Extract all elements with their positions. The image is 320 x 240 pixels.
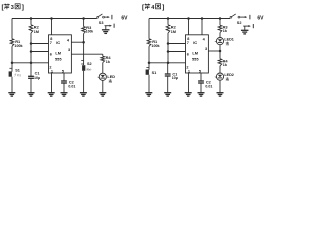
svg-text:ﾌﾟｯｼｭ: ﾌﾟｯｼｭ <box>14 73 21 77</box>
wire pin1 to ground fig4 <box>188 73 190 93</box>
wire pin7 line fig4 <box>168 43 186 45</box>
resistor R2 <box>29 25 39 34</box>
ground under S2 <box>80 92 87 94</box>
wire LED2 to ground fig4 <box>219 80 221 93</box>
svg-text:S2: S2 <box>87 62 92 66</box>
wire rail to R2 <box>30 19 32 25</box>
wire R3 to LED1 fig4 <box>219 33 221 38</box>
resistor R4 <box>101 55 111 64</box>
svg-text:555: 555 <box>192 56 199 61</box>
node rail-pin8 junction fig4 <box>187 17 190 20</box>
svg-text:S1: S1 <box>15 69 20 73</box>
capacitor C2 <box>61 80 75 88</box>
ground under S1 <box>8 92 15 94</box>
node rail-pin8 junction <box>50 17 53 20</box>
ground under S1 fig4 <box>145 92 152 94</box>
svg-text:6V: 6V <box>121 16 128 22</box>
battery minus terminal bar <box>113 24 115 28</box>
node rail-pin4 junction fig4 <box>201 17 204 20</box>
wire rail to R1 <box>11 19 13 39</box>
svg-text:6: 6 <box>187 52 189 56</box>
svg-text:S1: S1 <box>152 71 157 75</box>
svg-text:5: 5 <box>62 69 64 73</box>
wire battery minus line <box>105 25 111 27</box>
svg-text:LM: LM <box>192 51 198 56</box>
switch S1 pushbutton fig4 <box>146 67 157 75</box>
svg-text:10μ: 10μ <box>172 76 178 80</box>
node trigger junction <box>11 62 14 65</box>
wire +V rail circuit1 <box>12 18 97 20</box>
wire S1 to ground <box>11 77 13 93</box>
node pin7 junction fig4 <box>167 42 170 45</box>
node pin7 junction <box>30 42 33 45</box>
ground at battery minus <box>102 29 110 31</box>
svg-text:0.01: 0.01 <box>205 85 212 89</box>
svg-text:0.01: 0.01 <box>68 85 75 89</box>
svg-text:1M: 1M <box>34 30 39 34</box>
svg-text:LED2: LED2 <box>224 73 233 77</box>
svg-text:LED: LED <box>107 75 115 79</box>
svg-text:6: 6 <box>50 52 52 56</box>
wire pin3 output line <box>71 53 102 55</box>
wire S1 to ground fig4 <box>148 75 150 93</box>
node trigger junction fig4 <box>148 62 151 65</box>
LED D1 <box>98 73 116 83</box>
wire reset node to S2 <box>83 42 85 65</box>
wire node down to S1 fig4 <box>148 63 150 70</box>
svg-text:10μ: 10μ <box>34 76 40 80</box>
svg-text:7: 7 <box>50 41 52 45</box>
figure label [第3図] <box>2 4 24 12</box>
wire +V rail circuit2 <box>149 18 230 20</box>
node rail-R3 junction fig4 <box>219 17 222 20</box>
svg-text:1: 1 <box>188 69 190 73</box>
wire rail to R1 fig4 <box>148 19 150 39</box>
node C1 junction fig4 <box>167 62 170 65</box>
wire pin2 line fig4 <box>149 62 186 64</box>
battery plus terminal bar fig4 <box>249 15 251 20</box>
wire C1 to ground fig4 <box>167 76 169 93</box>
wire minus to ground fig4 <box>244 26 246 30</box>
svg-text:IC: IC <box>193 40 197 45</box>
node C1 junction <box>30 62 33 65</box>
svg-text:S3: S3 <box>99 21 104 25</box>
svg-text:LED1: LED1 <box>224 38 233 42</box>
switch S2 pushbutton <box>81 61 92 72</box>
svg-text:LM: LM <box>55 51 61 56</box>
svg-text:100k: 100k <box>14 44 23 48</box>
wire rail to R2 fig4 <box>167 19 169 25</box>
ground under C2 fig4 <box>198 92 205 94</box>
svg-text:100k: 100k <box>86 30 94 34</box>
wire pin1 IC to ground <box>51 73 53 93</box>
ground under pin1 <box>48 92 55 94</box>
battery plus terminal bar <box>111 15 113 20</box>
battery minus terminal bar fig4 <box>252 24 254 28</box>
switch S3 power <box>97 16 99 18</box>
wire C2 to ground fig4 <box>200 83 202 93</box>
wire R1 to trigger node fig4 <box>148 46 150 63</box>
svg-text:3: 3 <box>205 47 207 51</box>
wire C1 to ground <box>30 78 32 92</box>
wire rail to R3 <box>83 19 85 27</box>
wire LED1 to output node fig4 <box>219 45 221 51</box>
svg-text:6V: 6V <box>257 16 264 22</box>
wire pin6 line fig4 <box>168 51 186 53</box>
ground under C1 fig4 <box>164 92 171 94</box>
svg-text:]: ] <box>162 4 164 11</box>
svg-text:ﾘｾｯﾄ: ﾘｾｯﾄ <box>86 68 92 72</box>
wire R4 to LED2 fig4 <box>219 66 221 73</box>
wire pin8 rail to IC top <box>51 19 53 35</box>
resistor R1 <box>10 39 23 48</box>
svg-text:3: 3 <box>11 5 14 11</box>
wire pin4 rail to IC top fig4 <box>201 19 203 35</box>
wire C2 to ground <box>63 83 65 93</box>
svg-text:555: 555 <box>55 56 62 61</box>
wire S3 to battery plus <box>105 16 109 18</box>
node rail-R2 junction fig4 <box>167 17 170 20</box>
ground under pin1 fig4 <box>185 92 192 94</box>
wire rail to R3 fig4 <box>219 19 221 26</box>
wire R4 to LED <box>102 63 104 74</box>
capacitor C2 fig4 <box>198 80 212 88</box>
resistor R1 fig4 <box>147 39 160 48</box>
ground under LED <box>99 92 106 94</box>
svg-text:1: 1 <box>51 69 53 73</box>
ground under C2 <box>61 92 68 94</box>
wire S2 to battery plus fig4 <box>240 16 246 18</box>
wire R2 down fig4 <box>167 33 169 63</box>
svg-text:IC: IC <box>56 40 60 45</box>
svg-text:7: 7 <box>187 41 189 45</box>
wire R3 to reset node <box>83 34 85 43</box>
resistor R3 <box>82 25 94 33</box>
wire minus to ground <box>105 26 107 30</box>
resistor R4 fig4 <box>218 58 228 67</box>
wire pin5 IC down <box>63 73 65 81</box>
svg-text:5: 5 <box>199 69 201 73</box>
switch S1 pushbutton <box>9 68 22 77</box>
wire output corner down to R4 <box>102 54 104 56</box>
node reset junction <box>82 41 85 44</box>
wire S2 to ground <box>83 71 85 93</box>
wire pin7 line <box>31 43 49 45</box>
wire node to C1 fig4 <box>167 63 169 74</box>
wire pin2 line <box>12 62 49 64</box>
timer IC1 LM555 box <box>49 35 72 73</box>
ground under LED2 fig4 <box>217 92 224 94</box>
capacitor C1 <box>28 72 40 80</box>
svg-text:1M: 1M <box>171 30 176 34</box>
ground at battery minus fig4 <box>241 29 249 31</box>
wire node to C1 <box>30 63 32 77</box>
wire pin6 line <box>31 51 49 53</box>
node rail-R3 junction <box>82 17 85 20</box>
wire pin3 output line fig4 <box>208 50 220 52</box>
wire output node to R4 fig4 <box>219 51 221 59</box>
svg-text:100k: 100k <box>151 44 160 48</box>
LED D2 fig4 <box>215 73 234 81</box>
wire R1 to trigger node <box>11 46 13 63</box>
timer IC2 LM555 box <box>186 35 209 73</box>
wire R2 down to pin2 line <box>30 33 32 63</box>
wire LED to ground <box>102 80 104 92</box>
svg-text:]: ] <box>22 4 24 11</box>
ground under C1 <box>28 92 35 94</box>
wire pin5 down fig4 <box>200 73 202 81</box>
wire pin4 reset line <box>71 41 83 43</box>
node pin6 junction <box>30 50 33 53</box>
resistor R2 fig4 <box>166 25 176 34</box>
switch S2 power fig4 <box>230 16 232 18</box>
node rail-R2 junction <box>30 17 33 20</box>
resistor R3 fig4 <box>218 24 228 33</box>
wire node down to S1 <box>11 63 13 72</box>
svg-text:3: 3 <box>68 48 70 52</box>
node output junction fig4 <box>219 50 222 53</box>
capacitor C1 fig4 <box>165 72 178 80</box>
figure label [第4図] <box>142 4 164 12</box>
node pin6 junction fig4 <box>167 50 170 53</box>
wire pin8 rail to IC top fig4 <box>188 19 190 35</box>
wire battery minus line fig4 <box>243 25 249 27</box>
LED D1 fig4 <box>215 38 234 46</box>
svg-text:S2: S2 <box>237 21 242 25</box>
